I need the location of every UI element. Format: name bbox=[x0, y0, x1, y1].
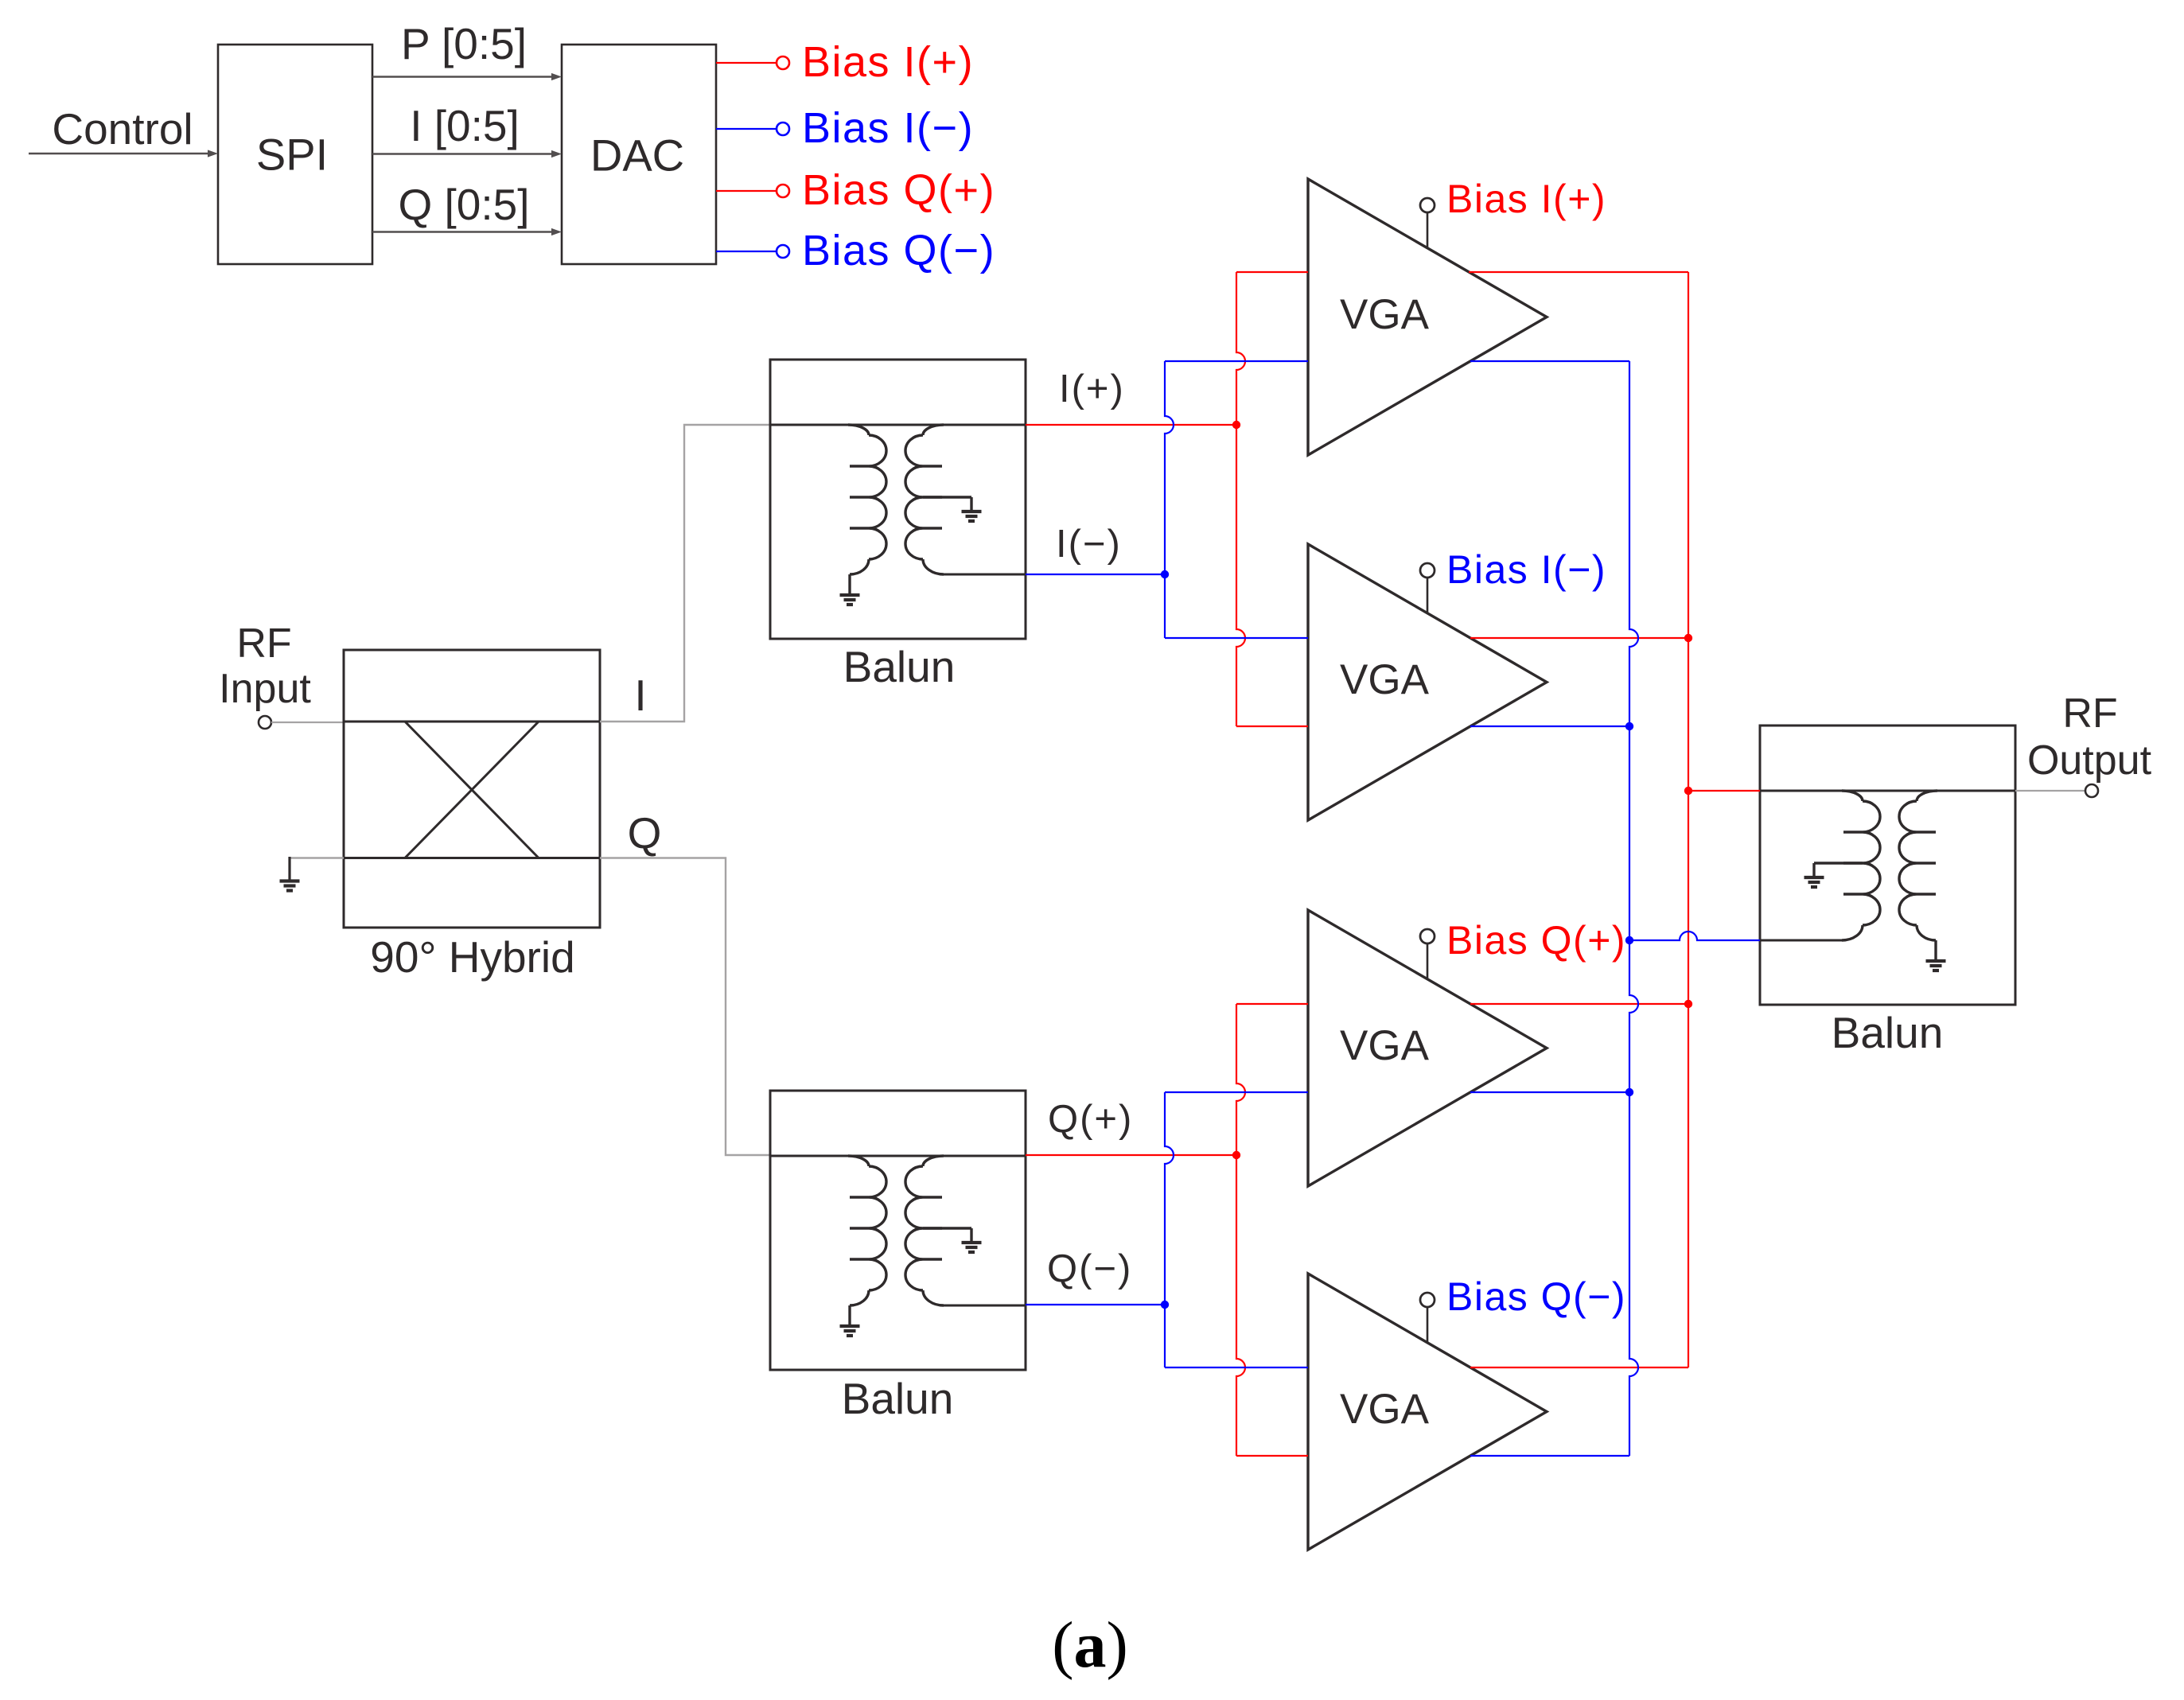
label Q[0:5] bbox=[398, 180, 529, 229]
wire blue output rail (x=2048) bbox=[1629, 361, 1638, 1456]
terminal RF Output bbox=[2085, 784, 2098, 797]
svg-text:Bias I(+): Bias I(+) bbox=[1446, 177, 1606, 221]
wire Bias I(+) from DAC bbox=[716, 62, 777, 64]
balun B1 (I) bbox=[770, 360, 1026, 639]
label P[0:5] bbox=[401, 19, 527, 68]
svg-text:RF: RF bbox=[236, 620, 291, 667]
svg-text:Input: Input bbox=[219, 666, 311, 712]
label Q(-) bbox=[1047, 1247, 1132, 1290]
VGA U3 (Bias Q+) bbox=[1308, 910, 1547, 1186]
VGA U4 (Bias Q-) bbox=[1308, 1274, 1547, 1550]
wire red rail Q (x=1554) bbox=[1236, 1004, 1245, 1456]
wire Bias Q(-) from DAC bbox=[716, 251, 777, 252]
wire U1 blue input bbox=[1165, 360, 1308, 362]
svg-text:Balun: Balun bbox=[842, 1374, 954, 1423]
svg-text:Q(+): Q(+) bbox=[1048, 1098, 1133, 1141]
label Balun B3 bbox=[1832, 1008, 1944, 1057]
node junction red to output balun bbox=[1684, 787, 1692, 795]
svg-text:DAC: DAC bbox=[590, 130, 684, 181]
node junction U3 blue output bbox=[1625, 1088, 1633, 1096]
terminal Bias Q(+) bbox=[777, 185, 789, 197]
svg-text:Bias I(−): Bias I(−) bbox=[802, 104, 974, 152]
wire Q(+) balun to rail bbox=[1026, 1154, 1236, 1156]
svg-text:I(+): I(+) bbox=[1059, 368, 1125, 410]
wire Bias I(-) from DAC bbox=[716, 128, 777, 130]
wire U2 blue output bbox=[1470, 726, 1629, 727]
wire blue to output balun bbox=[1629, 932, 1760, 940]
node junction I(+) rail bbox=[1232, 421, 1240, 429]
caption (a) bbox=[1052, 1609, 1128, 1681]
label Balun B1 bbox=[843, 642, 956, 691]
block SPI bbox=[218, 45, 372, 264]
wire U1 blue output bbox=[1470, 360, 1629, 362]
block DAC bbox=[562, 45, 716, 264]
wire RF output bbox=[2015, 790, 2085, 792]
wire U2 red input bbox=[1236, 726, 1308, 727]
label Bias Q(+) bbox=[802, 166, 995, 214]
wire U4 red input bbox=[1236, 1455, 1308, 1457]
wire U4 red output bbox=[1470, 1367, 1688, 1368]
node junction U2 blue output bbox=[1625, 722, 1633, 730]
terminal RF Input bbox=[259, 716, 271, 729]
svg-text:VGA: VGA bbox=[1340, 656, 1430, 703]
balun B2 (Q) bbox=[770, 1091, 1026, 1370]
svg-text:Bias Q(−): Bias Q(−) bbox=[802, 227, 995, 274]
svg-text:90° Hybrid: 90° Hybrid bbox=[370, 932, 574, 982]
svg-text:Balun: Balun bbox=[1832, 1008, 1944, 1057]
svg-text:Bias Q(+): Bias Q(+) bbox=[802, 166, 995, 214]
label Bias Q(+) at U3 bbox=[1446, 918, 1626, 963]
svg-text:P [0:5]: P [0:5] bbox=[401, 19, 527, 68]
svg-text:I [0:5]: I [0:5] bbox=[410, 101, 520, 150]
wire red to output balun bbox=[1688, 790, 1760, 792]
svg-text:(a): (a) bbox=[1052, 1609, 1128, 1681]
label Q bbox=[628, 808, 662, 858]
wire I from hybrid to balun B1 bbox=[600, 425, 770, 722]
wire U1 red input bbox=[1236, 271, 1308, 273]
label 90deg Hybrid bbox=[370, 932, 574, 982]
node junction I(-) rail bbox=[1161, 570, 1169, 578]
svg-text:Bias I(−): Bias I(−) bbox=[1446, 547, 1606, 592]
svg-text:I(−): I(−) bbox=[1056, 523, 1122, 566]
wire I(-) balun to rail bbox=[1026, 574, 1165, 575]
wire Bias Q(+) from DAC bbox=[716, 190, 777, 192]
wire blue rail Q (x=1464) bbox=[1165, 1092, 1174, 1367]
svg-text:Output: Output bbox=[2027, 737, 2152, 784]
svg-text:Bias Q(+): Bias Q(+) bbox=[1446, 918, 1626, 963]
terminal Bias I(+) bbox=[777, 56, 789, 69]
wire I(+) balun to rail bbox=[1026, 424, 1236, 426]
wire I[0:5] bbox=[372, 150, 562, 158]
label RF Output bbox=[2027, 691, 2152, 784]
wire P[0:5] bbox=[372, 73, 562, 80]
svg-text:Control: Control bbox=[52, 104, 193, 154]
wire red rail I (x=1554) bbox=[1236, 272, 1245, 726]
wire U1 red output bbox=[1469, 271, 1688, 273]
label Bias Q(-) at U4 bbox=[1446, 1274, 1626, 1319]
label RF Input bbox=[219, 620, 311, 712]
label Bias I(+) bbox=[802, 38, 974, 86]
wire U4 blue input bbox=[1165, 1367, 1308, 1368]
svg-text:VGA: VGA bbox=[1340, 1022, 1430, 1069]
VGA U1 (Bias I+) bbox=[1308, 179, 1547, 455]
wire U4 blue output bbox=[1470, 1455, 1629, 1457]
terminal Bias I(-) bbox=[777, 123, 789, 135]
svg-text:Bias Q(−): Bias Q(−) bbox=[1446, 1274, 1626, 1319]
ground at hybrid bbox=[280, 881, 300, 891]
wire U3 blue output bbox=[1470, 1091, 1629, 1093]
wire RF input to hybrid bbox=[271, 722, 344, 723]
label Bias I(-) at U2 bbox=[1446, 547, 1606, 592]
svg-text:I: I bbox=[634, 671, 646, 720]
label Bias I(-) bbox=[802, 104, 974, 152]
label Bias I(+) at U1 bbox=[1446, 177, 1606, 221]
block 90deg Hybrid bbox=[344, 650, 600, 928]
label Balun B2 bbox=[842, 1374, 954, 1423]
svg-text:Q [0:5]: Q [0:5] bbox=[398, 180, 529, 229]
svg-text:RF: RF bbox=[2062, 691, 2117, 737]
svg-text:VGA: VGA bbox=[1340, 1386, 1430, 1433]
node junction Q(+) rail bbox=[1232, 1151, 1240, 1159]
svg-text:Q: Q bbox=[628, 808, 662, 858]
label I bbox=[634, 671, 646, 720]
svg-text:VGA: VGA bbox=[1340, 291, 1430, 338]
label I(+) bbox=[1059, 368, 1125, 410]
svg-text:Bias I(+): Bias I(+) bbox=[802, 38, 974, 86]
node junction Q(-) rail bbox=[1161, 1301, 1169, 1309]
wire U3 red output bbox=[1470, 1003, 1688, 1005]
wire red output rail (x=2122) bbox=[1688, 272, 1689, 1367]
wire Q(-) balun to rail bbox=[1026, 1304, 1165, 1305]
wire U3 blue input bbox=[1165, 1091, 1308, 1093]
wire U3 red input bbox=[1236, 1003, 1308, 1005]
node junction U3 red output bbox=[1684, 1000, 1692, 1008]
balun B3 (output) bbox=[1760, 726, 2015, 1005]
wire hybrid ground arm bbox=[289, 857, 344, 880]
label Control bbox=[52, 104, 193, 154]
svg-text:Balun: Balun bbox=[843, 642, 956, 691]
node junction blue to output balun bbox=[1625, 936, 1633, 944]
wire Q[0:5] bbox=[372, 228, 562, 235]
svg-text:SPI: SPI bbox=[256, 130, 328, 180]
label Q(+) bbox=[1048, 1098, 1133, 1141]
wire U2 blue input bbox=[1165, 637, 1308, 639]
label Bias Q(-) bbox=[802, 227, 995, 274]
VGA U2 (Bias I-) bbox=[1308, 544, 1547, 820]
wire blue rail I (x=1464) bbox=[1165, 361, 1174, 638]
svg-text:Q(−): Q(−) bbox=[1047, 1247, 1132, 1290]
wire U2 red output bbox=[1470, 637, 1688, 639]
node junction U2 red output bbox=[1684, 634, 1692, 642]
wire Control input bbox=[29, 150, 218, 157]
wire Q from hybrid to balun B2 bbox=[600, 858, 770, 1156]
terminal Bias Q(-) bbox=[777, 245, 789, 258]
label I[0:5] bbox=[410, 101, 520, 150]
label I(-) bbox=[1056, 523, 1122, 566]
